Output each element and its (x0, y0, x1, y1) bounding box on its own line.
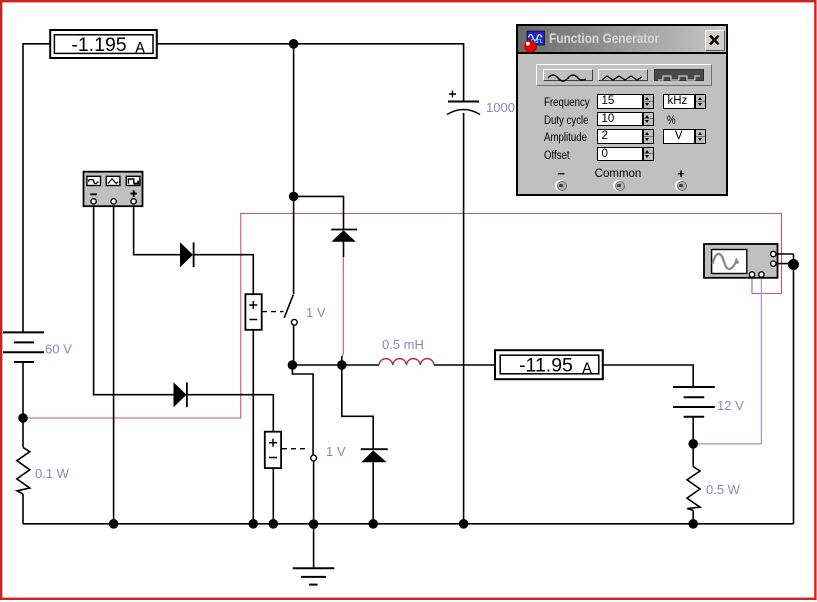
function generator instrument icon (84, 172, 143, 207)
wire ground stem (313, 524, 315, 568)
wire FG minus terminal down to diode D2 line (94, 204, 174, 395)
svg-text:-11.95: -11.95 (519, 355, 573, 377)
row Offset (544, 150, 570, 162)
wire S2 contact down to ground node (313, 461, 315, 524)
wire node D2 to switch S2 (292, 365, 313, 455)
node ground (309, 519, 319, 529)
svg-text:1 V: 1 V (306, 305, 326, 320)
wire R1 to bottom rail (22, 494, 24, 524)
diode D4 (361, 449, 388, 462)
resistor R1 0.1W (17, 447, 30, 494)
title text (549, 31, 659, 46)
wire red below diode D3 (342, 257, 344, 358)
svg-text:0.5 W: 0.5 W (706, 482, 741, 497)
bottom rail (23, 523, 794, 525)
node A (18, 413, 28, 423)
wire red jog bottom to node D (341, 356, 343, 365)
wire battery2 bottom through node E to R2 (692, 417, 694, 467)
wire rail up right side to scope node G (793, 254, 795, 524)
wire scope terminal 1 to node G (777, 253, 794, 255)
wire D3 bottom short black (343, 242, 345, 257)
dashed control line to S1 (262, 311, 284, 313)
ground (293, 568, 335, 584)
dashed control line to S2 (282, 448, 307, 450)
node E (688, 439, 698, 449)
svg-text:A: A (135, 40, 145, 58)
node rail D4 (368, 519, 378, 529)
capacitor C1 (447, 91, 480, 115)
wire main horizontal node D2 to inductor (292, 364, 379, 366)
svg-text:0.1 W: 0.1 W (35, 466, 70, 481)
sine button (543, 69, 593, 82)
terminal labels (554, 166, 568, 181)
svg-text:0.5 mH: 0.5 mH (382, 337, 424, 352)
close button (705, 30, 725, 52)
diode D1 (180, 242, 194, 267)
node F (688, 519, 698, 529)
diode D2 (174, 382, 187, 407)
ammeter M1 (50, 30, 157, 58)
function generator dialog (516, 24, 728, 196)
node B (289, 39, 299, 49)
inductor L1 0.5mH (379, 359, 434, 365)
svg-text:60 V: 60 V (45, 342, 72, 357)
wire box B2 bottom to rail (272, 468, 274, 524)
wire blue from node E to oscilloscope input B (694, 278, 761, 444)
waveform button bar (536, 64, 712, 86)
row Frequency (544, 97, 590, 109)
svg-text:-1.195: -1.195 (71, 34, 126, 56)
wire ammeter1 right to capacitor top (158, 44, 464, 101)
node D (337, 360, 347, 370)
svg-text:1 V: 1 V (326, 444, 346, 459)
wire ammeter2 right to battery2 (604, 365, 694, 387)
wire FG plus terminal to diode D1 (134, 204, 180, 255)
wire node C right to diode D3 (294, 196, 344, 229)
title icon (522, 28, 550, 54)
switch S1 lever (284, 295, 293, 318)
title bar (518, 26, 726, 54)
wire FG common terminal down to rail (113, 204, 115, 524)
node rail B1 (249, 519, 259, 529)
wire capacitor bottom down to rail (463, 113, 465, 524)
node rail FG common (109, 519, 119, 529)
wire battery to node A to resistor R1 (22, 362, 24, 447)
terminal minus (555, 180, 566, 191)
diode D3 (331, 230, 357, 242)
row Amplitude (544, 132, 587, 144)
svg-text:12 V: 12 V (717, 398, 744, 413)
switch S1 contact circle (291, 319, 297, 325)
battery V1 60V (3, 332, 44, 362)
wire below S1 contact to node D2 (293, 325, 295, 365)
control box B2 (265, 432, 281, 468)
wire red from node A to oscilloscope input (24, 214, 782, 419)
terminal plus (675, 180, 686, 191)
node G (788, 259, 799, 270)
terminal common (613, 180, 624, 191)
node D2 (288, 360, 298, 370)
switch S2 contact circle (311, 455, 317, 461)
square button (selected) (654, 69, 704, 82)
node C (289, 192, 299, 202)
ammeter M2 (495, 350, 603, 379)
battery V2 12V (673, 387, 715, 417)
wire scope terminal 2 to node G (777, 263, 794, 265)
oscilloscope icon (704, 244, 778, 278)
wire D4 bottom to rail (372, 462, 374, 524)
svg-text:A: A (582, 360, 592, 378)
wire box B1 bottom to rail (252, 330, 254, 524)
wire node B down through switch S1 top (293, 44, 295, 294)
triangle button (598, 69, 648, 82)
wire R2 bottom to rail (692, 510, 694, 523)
wire ammeter1 left to battery (23, 44, 50, 333)
wire inductor to ammeter2 (434, 364, 494, 366)
node rail capacitor (459, 519, 469, 529)
wire D1 cathode to control box B1 (194, 255, 254, 295)
row Duty cycle (544, 115, 589, 127)
control box B1 (245, 294, 261, 330)
resistor R2 0.5W (687, 467, 700, 511)
wire D2 cathode to control box B2 (187, 395, 273, 432)
wire node D down to diode D4 (342, 365, 373, 449)
node rail B2 (269, 519, 279, 529)
